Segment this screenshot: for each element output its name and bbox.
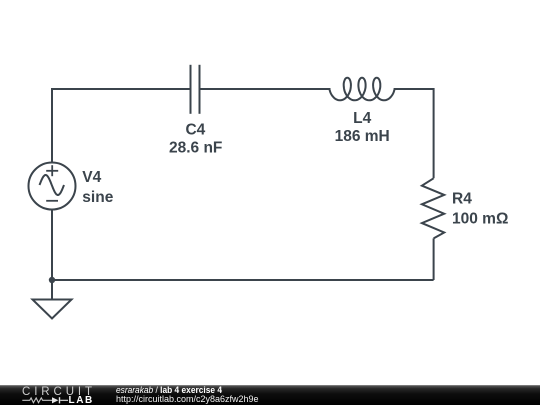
svg-text:28.6 nF: 28.6 nF (169, 140, 222, 157)
inductor L4 (329, 78, 394, 101)
wire right-bottom: R4 bottom down to bottom rail (433, 238, 435, 280)
wire left: V4 bottom down to ground node (51, 210, 53, 281)
svg-text:LAB: LAB (69, 395, 94, 405)
svg-text:186 mH: 186 mH (335, 128, 390, 145)
svg-text:L4: L4 (353, 110, 371, 127)
capacitor C4 (191, 65, 200, 114)
node junction dot at ground net (49, 277, 55, 283)
wire top-left: node A horizontal segment from V4 top to C4 left plate (52, 89, 190, 163)
wire top-middle: C4 right plate to L4 entry (201, 88, 331, 90)
resistor R4 (422, 178, 444, 238)
logo resistor squiggle (22, 398, 52, 403)
wire bottom: bottom rail from ground node to right rail (52, 279, 434, 281)
svg-text:100 mΩ: 100 mΩ (452, 211, 508, 228)
ground (33, 280, 72, 319)
svg-text:sine: sine (82, 189, 113, 206)
logo diode (52, 397, 68, 403)
svg-text:C4: C4 (185, 121, 205, 138)
svg-text:V4: V4 (82, 169, 101, 186)
voltage source V4 (sine source) (29, 163, 76, 210)
wire top-right: L4 exit to right rail corner, down to R4 top (394, 89, 434, 178)
svg-text:http://circuitlab.com/c2y8a6zf: http://circuitlab.com/c2y8a6zfw2h9e (116, 394, 259, 404)
svg-text:R4: R4 (452, 191, 472, 208)
